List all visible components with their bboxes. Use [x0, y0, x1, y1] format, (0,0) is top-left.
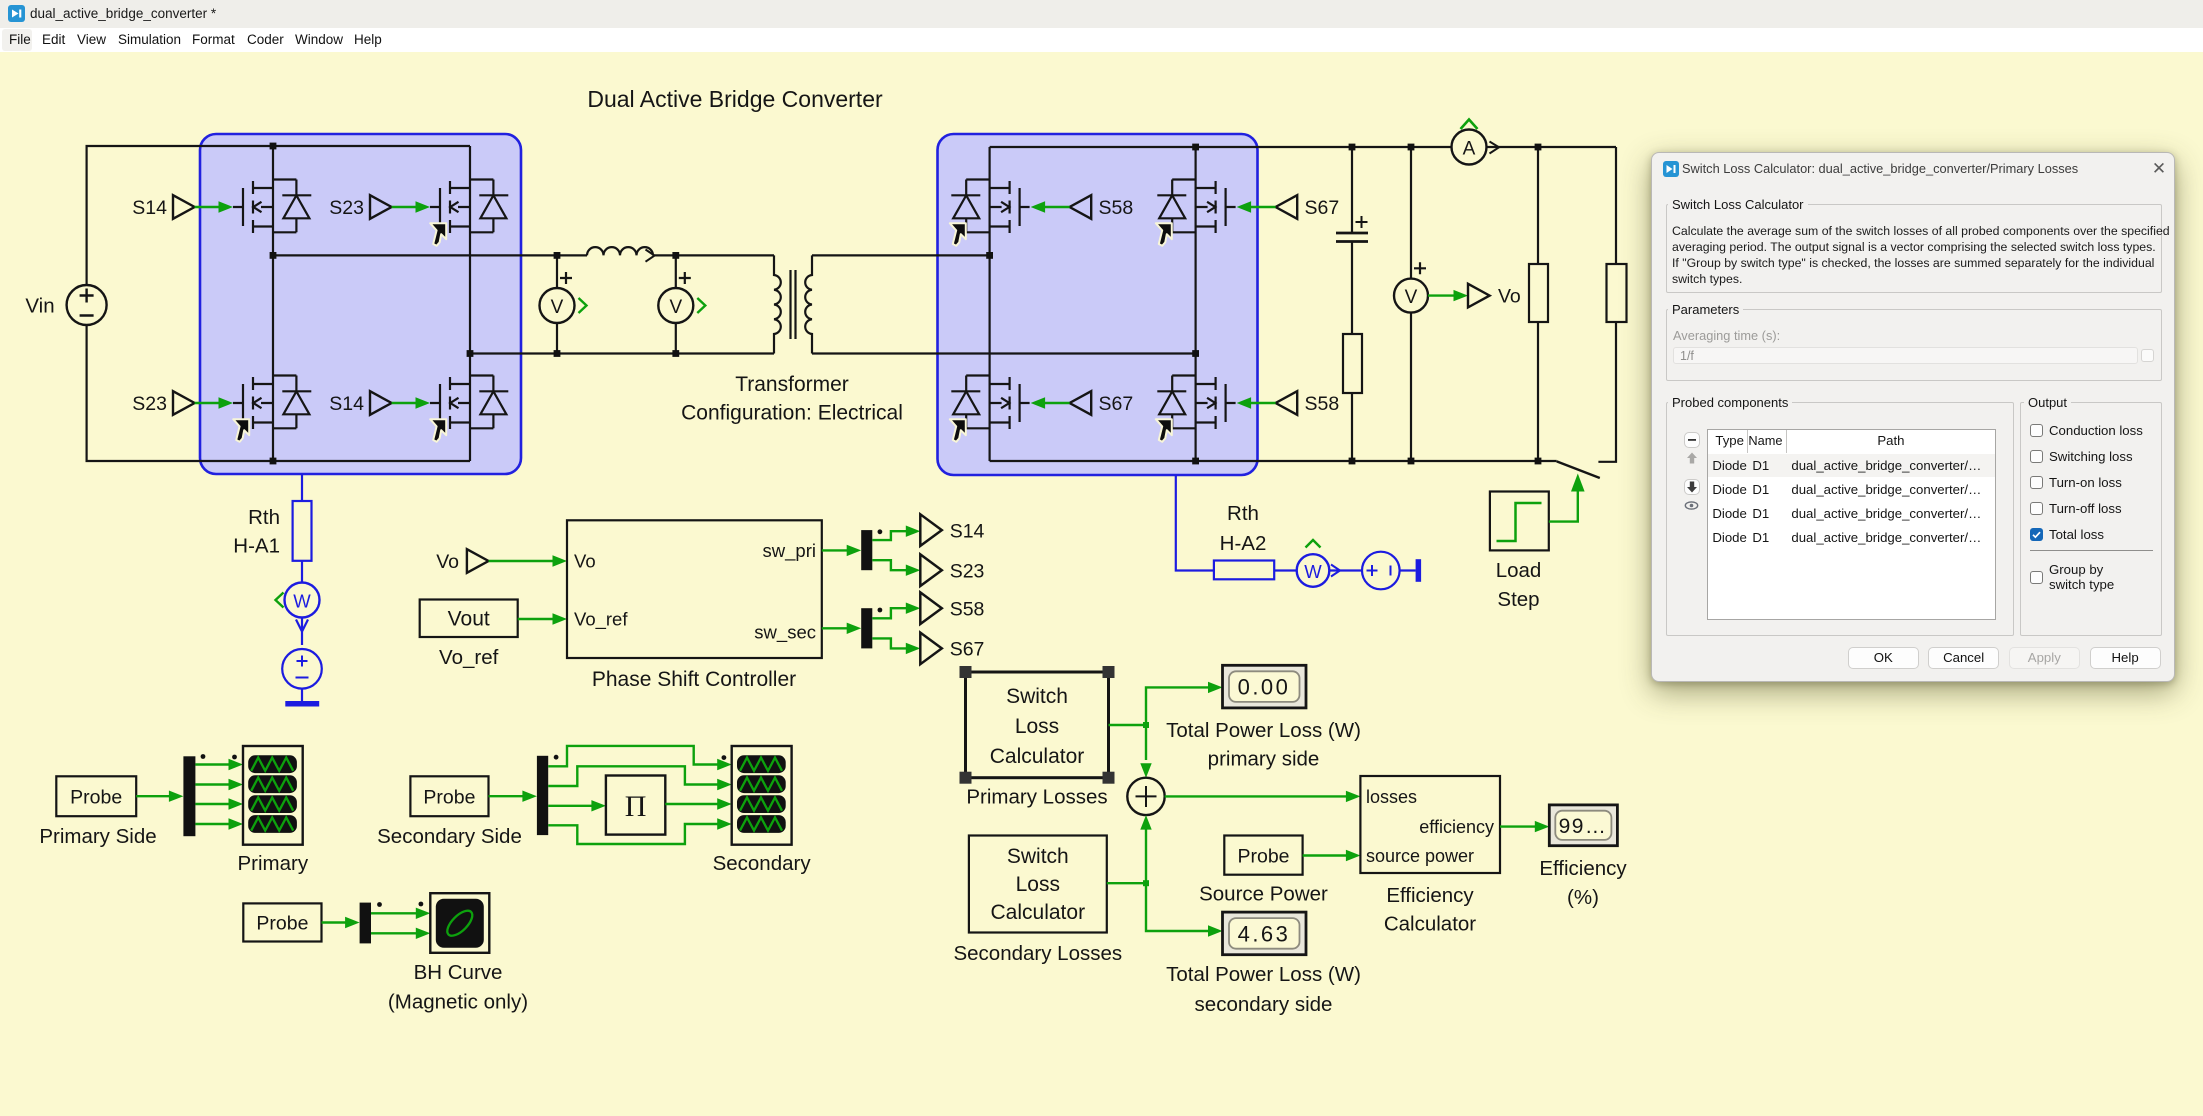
wire: Vin to top rail — [87, 146, 470, 285]
wire sw_sec to demux — [822, 623, 861, 634]
port S14 out — [920, 514, 984, 546]
junction bridge1 bottom — [270, 458, 277, 465]
subsystem Switch Loss Calculator 2 — [969, 836, 1107, 933]
junction bridge2 bottom-right — [1192, 458, 1199, 465]
probe cursor on Q2 — [430, 223, 446, 246]
wire MS out2 to scope row2 — [548, 766, 732, 790]
wire probe2 to mux — [489, 791, 537, 802]
port Vo — [1468, 284, 1521, 308]
svg-text:W: W — [1304, 561, 1322, 582]
wire: transformer secondary top to bridge2 — [812, 254, 990, 256]
gate port S67 bottom — [1070, 391, 1134, 415]
svg-text:4.63: 4.63 — [1238, 922, 1291, 947]
gate wire S14 top — [195, 201, 233, 212]
svg-text:Vo_ref: Vo_ref — [574, 609, 628, 631]
resistor R1 (cap branch) — [1343, 334, 1362, 393]
svg-text:S23: S23 — [132, 393, 167, 415]
svg-text:Rth: Rth — [1227, 502, 1259, 525]
svg-text:Probe: Probe — [423, 787, 475, 809]
window title bar — [0, 0, 2203, 29]
svg-text:H-A2: H-A2 — [1220, 532, 1267, 555]
junction V2 bottom — [672, 350, 679, 357]
power meter W2 — [1297, 540, 1340, 587]
mux MB — [360, 903, 371, 944]
svg-text:Loss: Loss — [1015, 715, 1059, 738]
inductor L1 — [587, 247, 655, 262]
svg-text:BH Curve: BH Curve — [414, 961, 503, 984]
junction load top — [1535, 144, 1542, 151]
probe Secondary Side — [410, 776, 488, 816]
svg-text:Phase Shift Controller: Phase Shift Controller — [592, 668, 796, 691]
H-bridge 2 highlight box — [938, 134, 1258, 475]
mosfet Q4 (S14 bottom-right) — [430, 376, 508, 430]
thermal ground 1 — [285, 689, 319, 707]
wire SLC2 to sum — [1140, 815, 1151, 883]
wire probe1 to mux — [136, 791, 183, 802]
wire to display 4.63 — [1146, 883, 1223, 937]
gate port S58 top — [1070, 195, 1134, 219]
junction V1 bottom — [554, 350, 561, 357]
svg-text:S14: S14 — [132, 197, 167, 219]
gate port S23 top — [329, 195, 391, 219]
svg-text:Primary Losses: Primary Losses — [966, 786, 1107, 809]
voltmeter V1 branch — [556, 255, 558, 353]
power meter W1 — [276, 583, 320, 618]
svg-text:S14: S14 — [329, 393, 364, 415]
svg-text:V: V — [551, 297, 564, 318]
junction V3 bottom — [1408, 458, 1415, 465]
gate port S67 top — [1276, 195, 1340, 219]
svg-text:Vo: Vo — [436, 551, 459, 573]
wire sum to efficiency calculator — [1165, 791, 1361, 802]
svg-text:Calculator: Calculator — [990, 745, 1085, 768]
svg-text:Vo_ref: Vo_ref — [439, 646, 499, 669]
step load resistor R3 — [1607, 264, 1627, 322]
wire MS out4 to scope row4 — [548, 818, 732, 844]
probed components table — [1707, 429, 1995, 621]
XY scope BH Curve — [430, 893, 489, 953]
voltmeter V3 — [1394, 262, 1428, 312]
svg-text:S67: S67 — [950, 639, 985, 661]
svg-text:Source Power: Source Power — [1199, 883, 1328, 906]
scope Secondary — [732, 746, 792, 845]
port Vo (controller input) — [436, 549, 488, 573]
svg-text:Step: Step — [1497, 588, 1539, 611]
subsystem Phase Shift Controller — [567, 520, 822, 658]
junction green 2 — [1143, 880, 1149, 886]
wire: inductor to transformer — [653, 254, 774, 256]
product block P1 — [606, 776, 665, 835]
junction green 1 — [1143, 722, 1149, 728]
svg-text:S23: S23 — [329, 197, 364, 219]
wire: bridge1 right column — [469, 146, 471, 461]
junction load bottom — [1535, 458, 1542, 465]
junction V3 top — [1408, 144, 1415, 151]
probe cursor on Q5 — [950, 223, 966, 246]
transformer secondary winding — [805, 255, 812, 353]
junction bridge2 mid-right — [1192, 350, 1199, 357]
mosfet Q1 (S14 top-left) — [233, 180, 311, 234]
demux M1 — [861, 530, 872, 570]
svg-text:S58: S58 — [1305, 393, 1340, 415]
demux M2 — [861, 608, 872, 648]
gate wire S58 top — [1031, 201, 1070, 212]
gate wire S23 bottom — [195, 397, 233, 408]
gate wire S58 bottom — [1237, 397, 1276, 408]
wire: bridge2 top rail — [990, 146, 1616, 148]
wire MS out1 to scope row1 — [548, 746, 732, 770]
transformer core — [791, 270, 796, 339]
wires MB to BH scope — [371, 908, 430, 939]
probe cursor on Q4 — [430, 419, 446, 442]
probe BH — [243, 903, 321, 941]
menu bar — [0, 28, 2203, 52]
svg-text:S67: S67 — [1305, 197, 1340, 219]
Switch Loss Calculator dialog — [1651, 152, 2175, 682]
svg-text:primary side: primary side — [1208, 748, 1320, 771]
svg-text:S67: S67 — [1099, 393, 1134, 415]
mux MB dot — [377, 902, 382, 907]
probe Source Power — [1224, 836, 1302, 875]
heat source T1 — [282, 649, 322, 689]
svg-text:A: A — [1463, 139, 1476, 160]
probe cursor on Q8 — [1156, 419, 1172, 442]
svg-text:W: W — [293, 591, 311, 612]
gate wire S67 bottom — [1031, 397, 1070, 408]
thermal resistor Rth H-A2 — [1214, 561, 1274, 580]
wire: Vin to bottom rail — [87, 325, 470, 461]
port S58 out — [920, 592, 984, 624]
svg-text:Transformer: Transformer — [735, 373, 849, 396]
gate port S58 bottom — [1276, 391, 1340, 415]
mux MP — [183, 756, 195, 836]
wires MP to scope — [195, 759, 243, 830]
svg-text:Probe: Probe — [256, 913, 308, 935]
voltmeter V3 branch — [1410, 147, 1412, 461]
heat source T2 — [1362, 552, 1400, 590]
sum block — [1127, 778, 1164, 815]
load step signal wire — [1549, 474, 1585, 522]
wire to sum — [1140, 725, 1151, 778]
svg-text:V: V — [1405, 287, 1418, 308]
svg-text:Dual Active Bridge Converter: Dual Active Bridge Converter — [587, 86, 883, 112]
wire SLC1 output — [1109, 724, 1147, 726]
signal wire V3 to Vo port — [1428, 290, 1468, 301]
wire: bridge2 bottom rail — [990, 460, 1557, 462]
display Total Power Loss primary — [1223, 665, 1307, 708]
junction bridge2 top-right — [1192, 144, 1199, 151]
svg-text:Vo: Vo — [1498, 286, 1521, 308]
thermal terminal bar 2 — [1416, 559, 1422, 582]
svg-text:Vo: Vo — [574, 551, 596, 572]
load resistor R2 — [1529, 264, 1548, 322]
wire SLC2 output — [1107, 882, 1146, 884]
svg-text:Primary Side: Primary Side — [39, 825, 156, 848]
display Total Power Loss secondary — [1223, 912, 1307, 955]
step load branch — [1598, 147, 1616, 462]
wire MS out3 to product — [548, 800, 606, 811]
wire Vout to controller — [518, 613, 567, 624]
gate wire S67 top — [1237, 201, 1276, 212]
svg-text:Vin: Vin — [25, 295, 54, 318]
svg-text:Secondary Losses: Secondary Losses — [953, 942, 1122, 965]
mosfet Q3 (S23 bottom-left) — [233, 376, 311, 430]
subsystem Switch Loss Calculator 1 (selected) — [960, 666, 1115, 784]
wire: bridge1 mid-right rail to transformer primary bottom — [470, 352, 774, 354]
junction bridge2 mid-left — [986, 252, 993, 259]
svg-text:Rth: Rth — [248, 506, 280, 529]
svg-text:Probe: Probe — [70, 787, 122, 809]
svg-text:Vout: Vout — [448, 608, 490, 631]
display Efficiency — [1549, 805, 1617, 846]
wire probe3 to mux — [322, 917, 360, 928]
wire: bridge1 left column — [272, 146, 274, 461]
wire probe to efficiency calculator — [1303, 850, 1361, 861]
wire product to scope row3 — [665, 798, 731, 809]
junction V2 top — [672, 252, 679, 259]
wire M2 to S67 — [872, 638, 920, 654]
scope Primary dot — [232, 755, 237, 760]
svg-text:S58: S58 — [1099, 197, 1134, 219]
svg-text:V: V — [669, 297, 682, 318]
wire M2 to S58 — [872, 603, 920, 619]
svg-text:secondary side: secondary side — [1195, 993, 1333, 1016]
probe cursor on Q3 — [233, 419, 249, 442]
capacitor C1 branch — [1351, 147, 1353, 461]
svg-text:Efficiency: Efficiency — [1539, 857, 1627, 880]
probe cursor on Q7 — [950, 419, 966, 442]
wire efficiency to display — [1500, 821, 1549, 832]
svg-text:Probe: Probe — [1237, 846, 1289, 868]
junction V1 top — [554, 252, 561, 259]
gate port S14 bottom — [329, 391, 391, 415]
scope Primary — [243, 746, 303, 845]
probe cursor on Q6 — [1156, 223, 1172, 246]
svg-text:H-A1: H-A1 — [233, 535, 280, 558]
probe Primary Side — [56, 776, 136, 816]
svg-text:sw_pri: sw_pri — [763, 540, 816, 562]
gate port S23 bottom — [132, 391, 194, 415]
svg-text:Switch: Switch — [1007, 845, 1069, 868]
gate port S14 top — [132, 195, 194, 219]
arrow below W1 — [296, 618, 308, 646]
voltmeter V2 — [658, 272, 705, 323]
junction bridge1 mid-right — [467, 350, 474, 357]
demux M2 dot — [878, 608, 883, 613]
svg-text:0.00: 0.00 — [1238, 675, 1291, 700]
svg-text:(Magnetic only): (Magnetic only) — [388, 991, 528, 1014]
svg-text:Primary: Primary — [237, 852, 308, 875]
wire: bridge2 left column — [988, 147, 990, 461]
svg-text:Total Power Loss (W): Total Power Loss (W) — [1166, 719, 1361, 742]
svg-text:S58: S58 — [950, 599, 985, 621]
gate wire S14 bottom — [392, 397, 430, 408]
wire M1 to S23 — [872, 560, 920, 576]
thermal wire H-A1 — [301, 474, 303, 583]
thermal wire H-A2 — [1176, 475, 1416, 571]
wire to display 0.00 — [1146, 682, 1223, 725]
svg-text:Calculator: Calculator — [1384, 913, 1476, 936]
wire: transformer secondary bottom to bridge2 — [812, 352, 1196, 354]
constant block Vout — [420, 600, 518, 638]
voltage source Vin — [67, 285, 107, 325]
wire: bridge2 right column — [1194, 147, 1196, 461]
svg-text:Calculator: Calculator — [991, 901, 1086, 924]
svg-text:Switch: Switch — [1006, 685, 1068, 708]
BH scope dot — [419, 902, 424, 907]
voltmeter V1 — [540, 272, 587, 323]
junction cap bottom — [1349, 458, 1356, 465]
junction cap top — [1349, 144, 1356, 151]
wire sw_pri to demux — [822, 545, 861, 556]
demux M1 dot — [878, 529, 883, 534]
mosfet Q7 (S67 bottom-left) — [951, 376, 1029, 430]
svg-text:S14: S14 — [950, 521, 985, 543]
svg-text:Loss: Loss — [1016, 873, 1060, 896]
wire M1 to S14 — [872, 526, 920, 541]
svg-text:Π: Π — [625, 790, 647, 823]
port S67 out — [920, 633, 984, 665]
ammeter A1 — [1452, 120, 1500, 165]
load step block — [1490, 492, 1549, 551]
transformer TR1 primary winding — [774, 255, 781, 353]
mosfet Q6 (S67 top-right) — [1157, 180, 1235, 234]
svg-text:Load: Load — [1496, 559, 1542, 582]
mosfet Q5 (S58 top-left) — [951, 180, 1029, 234]
svg-text:source power: source power — [1366, 846, 1474, 866]
switch SW1 — [1557, 461, 1600, 478]
load resistor branch — [1537, 147, 1539, 461]
wire: bridge1 mid-left rail to transformer primary top — [273, 254, 587, 256]
scope Secondary dot — [722, 755, 727, 760]
svg-text:Secondary: Secondary — [713, 852, 812, 875]
junction bridge1 top — [270, 143, 277, 150]
H-bridge 1 highlight box — [200, 134, 521, 474]
subsystem Efficiency Calculator — [1360, 776, 1500, 873]
mux MS — [537, 756, 548, 835]
port S23 out — [920, 554, 984, 586]
svg-text:Configuration: Electrical: Configuration: Electrical — [681, 402, 903, 425]
svg-text:Total Power Loss (W): Total Power Loss (W) — [1166, 963, 1361, 986]
svg-text:99…: 99… — [1559, 815, 1608, 838]
junction bridge1 mid-left — [270, 252, 277, 259]
mux MS dot — [554, 755, 559, 760]
thermal resistor Rth H-A1 — [293, 501, 312, 561]
svg-text:Efficiency: Efficiency — [1386, 884, 1474, 907]
mosfet Q2 (S23 top-right) — [430, 180, 508, 234]
svg-text:S23: S23 — [950, 561, 985, 583]
wire Vo to controller — [489, 555, 567, 566]
mosfet Q8 (S58 bottom-right) — [1157, 376, 1235, 430]
svg-text:Secondary Side: Secondary Side — [377, 825, 522, 848]
svg-text:losses: losses — [1366, 787, 1417, 807]
svg-text:(%): (%) — [1567, 886, 1599, 909]
mux MP dot — [201, 754, 206, 759]
voltmeter V2 branch — [675, 255, 677, 353]
svg-text:efficiency: efficiency — [1419, 817, 1494, 837]
svg-text:sw_sec: sw_sec — [754, 622, 816, 644]
capacitor C1 — [1336, 216, 1368, 242]
gate wire S23 top — [392, 201, 430, 212]
